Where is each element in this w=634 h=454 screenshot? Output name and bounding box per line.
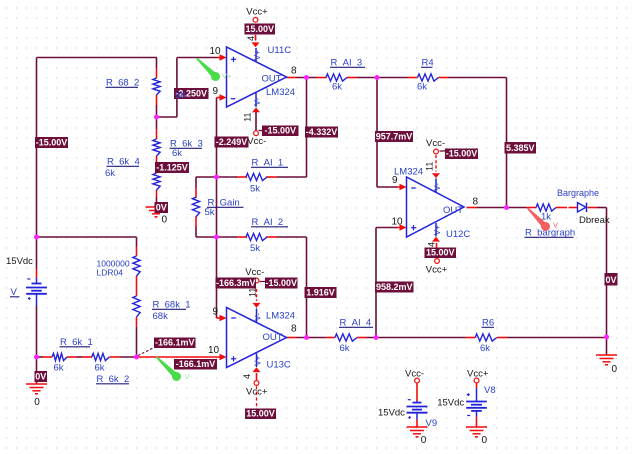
svg-text:0: 0 (34, 397, 40, 408)
svg-text:15Vdc: 15Vdc (378, 407, 405, 418)
svg-text:LDR04: LDR04 (97, 268, 124, 278)
svg-text:15.00V: 15.00V (246, 408, 275, 418)
svg-text:V-: V- (253, 98, 262, 106)
svg-text:8: 8 (291, 66, 297, 77)
svg-text:Vcc-: Vcc- (247, 136, 266, 147)
svg-text:V+: V+ (222, 71, 232, 80)
svg-text:V+: V+ (254, 355, 263, 365)
svg-text:Bargraphe: Bargraphe (557, 188, 599, 198)
svg-text:9: 9 (213, 86, 219, 97)
svg-text:0: 0 (421, 435, 427, 446)
svg-text:V9: V9 (426, 418, 438, 429)
svg-text:6k: 6k (172, 148, 182, 159)
svg-text:15.00V: 15.00V (426, 247, 455, 257)
svg-text:5k: 5k (205, 207, 215, 218)
svg-text:11: 11 (243, 112, 253, 121)
svg-text:OUT: OUT (263, 332, 283, 343)
svg-text:9: 9 (213, 307, 219, 318)
svg-text:Dbreak: Dbreak (579, 215, 610, 226)
svg-text:V+: V+ (253, 50, 262, 60)
svg-text:0V: 0V (35, 371, 46, 381)
svg-text:-4.332V: -4.332V (306, 127, 338, 137)
svg-text:5k: 5k (250, 184, 260, 195)
svg-text:10: 10 (392, 217, 404, 228)
svg-text:4: 4 (427, 242, 437, 247)
svg-text:957.7mV: 957.7mV (376, 131, 413, 141)
svg-text:4: 4 (246, 36, 256, 41)
svg-text:68k: 68k (153, 311, 169, 322)
svg-text:11: 11 (425, 162, 435, 171)
svg-text:Vcc+: Vcc+ (246, 7, 268, 18)
svg-text:Vcc-: Vcc- (245, 267, 264, 278)
svg-text:8: 8 (291, 324, 297, 335)
svg-text:15Vdc: 15Vdc (437, 398, 464, 409)
svg-text:0: 0 (162, 215, 168, 226)
svg-text:LM324: LM324 (394, 167, 423, 178)
svg-text:0: 0 (612, 364, 618, 375)
svg-text:6k: 6k (480, 343, 490, 354)
svg-text:Vcc-: Vcc- (405, 368, 424, 379)
svg-text:V-: V- (254, 313, 263, 321)
svg-text:U12C: U12C (446, 229, 470, 240)
svg-text:1.916V: 1.916V (306, 287, 335, 297)
svg-text:68: 68 (175, 90, 186, 101)
svg-text:-15.00V: -15.00V (265, 278, 297, 288)
svg-text:-166.3mV: -166.3mV (216, 278, 256, 288)
svg-text:0V: 0V (156, 202, 167, 212)
svg-text:-2.249V: -2.249V (216, 137, 248, 147)
svg-text:4: 4 (242, 374, 252, 379)
svg-text:LM324: LM324 (266, 311, 295, 322)
svg-text:U13C: U13C (267, 360, 291, 371)
svg-text:6k: 6k (417, 82, 427, 93)
svg-text:5k: 5k (250, 243, 260, 254)
svg-text:5.385V: 5.385V (506, 143, 535, 153)
svg-text:OUT: OUT (443, 205, 463, 216)
svg-text:-1.125V: -1.125V (156, 162, 188, 172)
svg-text:0V: 0V (605, 275, 616, 285)
svg-text:OUT: OUT (262, 74, 282, 85)
svg-text:6k: 6k (54, 363, 64, 374)
svg-text:11: 11 (248, 288, 258, 297)
svg-text:V8: V8 (484, 385, 496, 396)
svg-text:-15.00V: -15.00V (36, 137, 68, 147)
svg-text:0: 0 (482, 435, 488, 446)
svg-text:15.00V: 15.00V (245, 24, 274, 34)
svg-text:Vcc+: Vcc+ (246, 387, 268, 398)
svg-text:958.2mV: 958.2mV (376, 282, 413, 292)
svg-text:Vcc+: Vcc+ (467, 368, 489, 379)
svg-text:6k: 6k (340, 343, 350, 354)
svg-text:V-: V- (185, 372, 193, 381)
svg-text:Vcc+: Vcc+ (426, 265, 448, 276)
svg-text:Vcc-: Vcc- (426, 138, 445, 149)
svg-text:15Vdc: 15Vdc (6, 256, 33, 267)
svg-text:-15.00V: -15.00V (264, 125, 296, 135)
svg-text:-15.00V: -15.00V (446, 148, 478, 158)
svg-text:V+: V+ (433, 225, 442, 235)
svg-text:6k: 6k (332, 82, 342, 93)
svg-text:-166.1mV: -166.1mV (176, 359, 216, 369)
svg-text:U11C: U11C (268, 45, 292, 56)
svg-text:6k: 6k (95, 363, 105, 374)
svg-text:10: 10 (208, 345, 220, 356)
svg-text:LM324: LM324 (266, 87, 295, 98)
svg-text:10: 10 (210, 46, 222, 57)
svg-text:V-: V- (433, 183, 442, 191)
svg-text:8: 8 (473, 197, 479, 208)
svg-text:6k: 6k (105, 168, 115, 179)
svg-text:V: V (553, 221, 558, 230)
svg-text:-166.1mV: -166.1mV (155, 337, 195, 347)
